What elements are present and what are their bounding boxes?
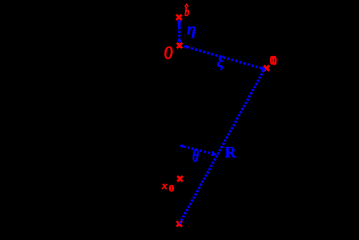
svg-text:η: η [187, 19, 196, 38]
svg-text:x: x [161, 180, 168, 192]
svg-text:ξ: ξ [217, 54, 225, 71]
svg-text:O: O [164, 43, 173, 63]
svg-text:0: 0 [169, 184, 175, 194]
svg-text:θ: θ [192, 145, 199, 166]
svg-text:b: b [185, 6, 190, 20]
svg-text:R: R [225, 145, 237, 162]
